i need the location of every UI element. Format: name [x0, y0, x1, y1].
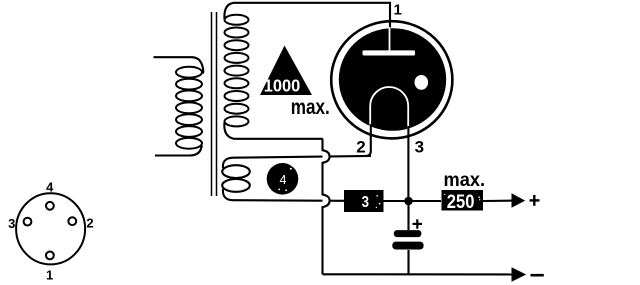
- svg-text:4: 4: [46, 179, 54, 194]
- svg-text:1: 1: [46, 267, 53, 282]
- svg-text:3: 3: [362, 194, 369, 211]
- svg-text:max.: max.: [444, 169, 486, 191]
- svg-text:2: 2: [86, 215, 93, 230]
- svg-text:4: 4: [280, 173, 287, 187]
- svg-text:3: 3: [415, 137, 424, 156]
- svg-text:1: 1: [394, 2, 402, 19]
- svg-text:max.: max.: [291, 95, 330, 119]
- svg-text:2: 2: [356, 137, 365, 156]
- svg-text:3: 3: [8, 216, 15, 231]
- svg-text:1000: 1000: [264, 75, 301, 95]
- svg-text:250: 250: [447, 191, 475, 213]
